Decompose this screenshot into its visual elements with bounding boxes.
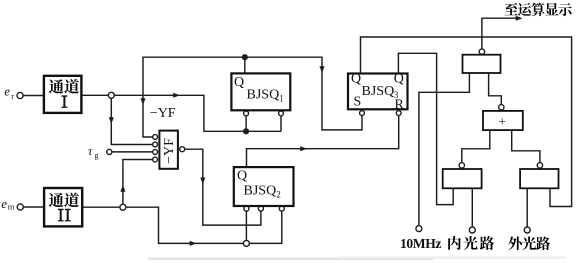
arrowhead: up toward -YF input 4 — [120, 185, 125, 192]
wire: adder output to inner-path box input bubble — [462, 130, 490, 163]
wire: -YF output to BJSQ2 pin 2 — [185, 149, 261, 225]
wire: outer-path box terminal drop — [526, 188, 528, 227]
label: BJSQ2 name — [244, 183, 281, 199]
terminal circle: e_r — [17, 92, 23, 98]
svg-text:1: 1 — [279, 94, 284, 104]
svg-text:S: S — [354, 95, 362, 110]
block: inner optical path box — [443, 169, 482, 188]
wire: channel II output to junction — [82, 206, 120, 208]
arrowhead: down into -YF input 2 — [109, 117, 114, 124]
svg-text:e: e — [1, 196, 7, 211]
wire: feedback bus from dot left to -YF input 1 — [143, 57, 245, 137]
wire: BJSQ2 Q top to BJSQ3 R input — [247, 116, 399, 168]
wire: tau_g to -YF input 3 — [112, 151, 153, 153]
label: 10MHz terminal — [400, 236, 441, 251]
gate: -YF NAND block — [159, 131, 178, 169]
label: BJSQ3 S pin — [354, 95, 362, 110]
block: BJSQ2 flip-flop — [234, 167, 294, 206]
label: channel I box text — [49, 79, 79, 108]
svg-text:3: 3 — [394, 90, 399, 100]
arrowhead: bottom bus right — [190, 241, 197, 246]
pin bubble: outer-path box input — [537, 163, 542, 168]
wire: channel II junction up to -YF input 4 — [123, 160, 153, 205]
wire: e_m input to channel II — [23, 206, 44, 208]
block: adder box — [483, 111, 523, 130]
label: tau_g delay input — [88, 144, 99, 160]
wire: channel I junction to BJSQ1 bottom pins (with corner) — [114, 95, 281, 131]
block: channel II box — [44, 188, 82, 226]
arrowhead: feedback into BJSQ3 S down — [319, 66, 324, 73]
wire: adder output to outer-path box input bubble — [512, 130, 540, 163]
label: channel II box text — [49, 193, 79, 222]
pin bubble: BJSQ2 pin 3 — [279, 206, 284, 211]
node: channel II output junction — [120, 204, 126, 210]
wire: channel I output to junction — [81, 94, 108, 96]
wire: top box output to adder input bubble — [489, 73, 502, 105]
svg-text:r: r — [11, 92, 14, 101]
label: -YF text inside gate (rotated) — [162, 138, 177, 164]
caption remnant at bottom edge — [148, 257, 565, 261]
label: BJSQ1 name — [247, 88, 284, 104]
label: BJSQ3 Q left pin — [351, 72, 361, 87]
label: BJSQ3 Q right pin — [394, 72, 404, 87]
pin bubble: -YF input 4 — [153, 157, 158, 162]
terminal circle: tau_g — [107, 149, 112, 154]
block: top right box — [463, 55, 501, 73]
wire: BJSQ1 bottom-left pin drop — [245, 116, 247, 131]
arrowhead: to arithmetic display right — [516, 16, 523, 21]
pin bubble: BJSQ3 R — [396, 111, 401, 116]
wire: BJSQ3 Q right top loop to inner-path box bottom — [398, 53, 453, 204]
terminal circle: 10MHz — [416, 226, 422, 232]
pin bubble: -YF output — [180, 147, 185, 152]
svg-text:g: g — [95, 151, 99, 160]
svg-text:10MHz: 10MHz — [400, 236, 441, 251]
svg-text:e: e — [4, 84, 10, 99]
pin bubble: -YF input 3 — [153, 150, 158, 155]
label: BJSQ2 Q pin — [237, 169, 247, 184]
pin bubble: BJSQ2 pin 2 — [258, 206, 263, 211]
pin bubble: BJSQ1 bottom right — [279, 111, 284, 116]
arrowhead: channel I line right — [173, 93, 180, 98]
pin bubble: BJSQ1 bottom left — [244, 111, 249, 116]
pin bubble: inner-path box input — [459, 163, 464, 168]
pin bubble: BJSQ3 S — [360, 111, 365, 116]
node: channel I output junction — [108, 92, 114, 98]
junction dot: channel I bus at BJSQ1 bottom — [243, 128, 249, 134]
label: outer optical path terminal — [508, 236, 550, 250]
pin bubble: BJSQ2 pin 1 — [244, 206, 249, 211]
svg-text:BJSQ: BJSQ — [247, 88, 280, 103]
terminal circle: outer optical path — [524, 227, 530, 233]
wire: BJSQ1 bottom-right pin drop — [280, 116, 282, 131]
block: outer optical path box — [520, 169, 558, 188]
label: -YF gate name above — [150, 106, 176, 121]
wire: BJSQ3 Q left top loop to outer-path box bottom — [361, 37, 572, 207]
svg-text:+: + — [499, 114, 506, 129]
svg-text:2: 2 — [276, 189, 281, 199]
wire: channel II junction to bottom bus and BJSQ2 pin 3 — [125, 207, 243, 243]
label: adder plus sign — [499, 114, 506, 129]
terminal circle: inner optical path — [469, 227, 475, 233]
wire: BJSQ1 Q top stub to junction dot — [244, 57, 246, 73]
label: inner optical path terminal — [448, 236, 494, 250]
label: e_r input — [4, 84, 14, 101]
wire: BJSQ2 pin 1 drop to bottom bus junction — [245, 211, 247, 241]
label: BJSQ3 name — [362, 84, 399, 100]
svg-text:Q: Q — [234, 75, 244, 90]
wire: junction down to -YF input 2 — [111, 98, 152, 145]
svg-text:−YF: −YF — [162, 138, 177, 164]
svg-text:Q: Q — [237, 169, 247, 184]
pin bubble: top box input — [479, 49, 484, 54]
svg-text:Q: Q — [394, 72, 404, 87]
svg-text:τ: τ — [88, 144, 93, 158]
wire: feedback bus from dot right to BJSQ3 S input — [245, 57, 362, 130]
pin bubble: adder input — [499, 105, 504, 110]
label: BJSQ3 R pin — [395, 98, 405, 113]
wire: inner-path box terminal drop — [471, 188, 473, 227]
svg-text:BJSQ: BJSQ — [362, 84, 395, 99]
block: BJSQ3 flip-flop — [348, 74, 408, 110]
pin bubble: -YF input 2 — [153, 142, 158, 147]
block: channel I box — [44, 76, 82, 113]
arrowhead: down into -YF input 1 — [140, 98, 145, 105]
svg-text:−YF: −YF — [150, 106, 176, 121]
arrowhead: -YF output down — [200, 178, 205, 185]
label: e_m input — [1, 196, 15, 212]
wire: to arithmetic display riser — [482, 18, 518, 49]
pin bubble: -YF input 1 — [153, 135, 158, 140]
wire: e_r input to channel I — [23, 95, 44, 97]
arrowhead: BJSQ2 to R line right — [300, 146, 307, 151]
block: BJSQ1 flip-flop — [231, 73, 290, 110]
svg-text:BJSQ: BJSQ — [244, 183, 277, 198]
label: BJSQ1 Q pin — [234, 75, 244, 90]
wire: bottom bus junction to BJSQ2 pin 3 riser — [249, 211, 282, 243]
svg-text:Q: Q — [351, 72, 361, 87]
svg-text:m: m — [8, 202, 15, 212]
wire: top box output to 10MHz terminal — [419, 73, 470, 226]
terminal circle: e_m — [17, 204, 23, 210]
junction dot: feedback bus at BJSQ1 top — [242, 54, 248, 60]
node: bottom bus junction — [243, 240, 249, 246]
label: to arithmetic display — [504, 3, 571, 16]
